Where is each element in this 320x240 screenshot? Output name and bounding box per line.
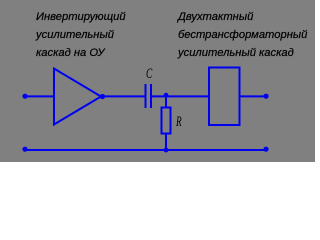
node G (junction dot resistor/rail) [164,148,169,153]
node COM1 (rail left terminal dot) [22,147,27,152]
node B (junction dot at resistor top) [164,93,169,98]
wire: capacitor to block [152,95,209,97]
wire: bottom common rail [25,149,266,151]
capacitor C (left plate) [145,84,147,108]
node IN (input terminal dot) [22,94,27,99]
wire: op-amp output to capacitor [103,95,145,97]
op-amp U1 (triangle) [54,69,101,125]
node OUT (output terminal dot) [263,94,268,99]
resistor R (body) [162,108,171,134]
annotation: left caption "Инвертирующий усилительный каскад на ОУ" [36,8,126,62]
wire: resistor bottom to ground rail [165,135,167,151]
annotation: right caption "Двухтактный бестрансформаторный усилительный каскад" [178,8,307,62]
wire: input terminal to op-amp [25,95,54,97]
node COM2 (rail right terminal dot) [263,147,268,152]
node A (junction dot at op-amp output) [100,94,105,99]
capacitor C (right plate) [150,84,152,108]
block U2 (push-pull amplifier stage rectangle) [209,68,240,126]
wire: block output to output terminal [240,95,265,97]
label C (capacitor value label) [146,66,150,83]
wire: junction B down to resistor [165,96,167,107]
label R (resistor value label) [176,114,180,131]
